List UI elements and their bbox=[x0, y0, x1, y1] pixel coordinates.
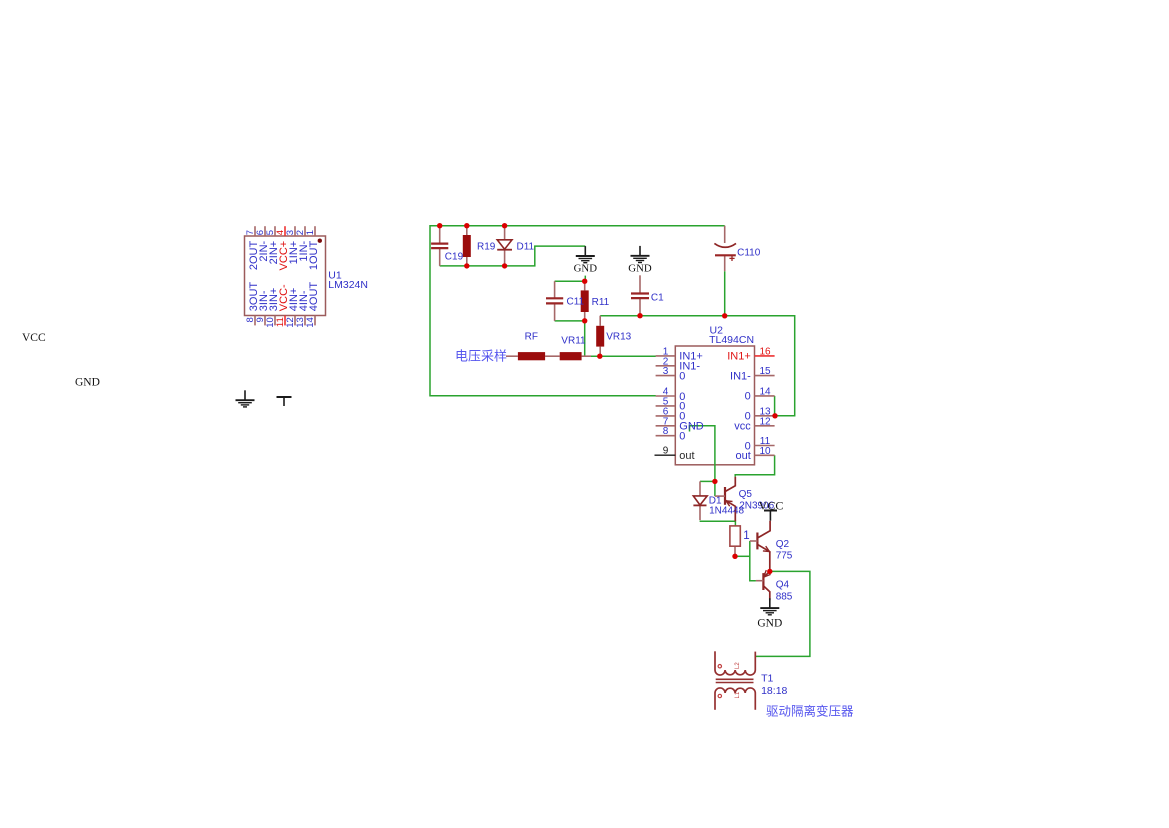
svg-text:0: 0 bbox=[679, 431, 685, 443]
svg-text:out: out bbox=[679, 450, 694, 462]
svg-text:out: out bbox=[736, 450, 751, 462]
svg-text:LM324N: LM324N bbox=[328, 279, 368, 291]
svg-text:C11: C11 bbox=[567, 297, 585, 308]
svg-text:T1: T1 bbox=[761, 672, 773, 684]
svg-text:R11: R11 bbox=[592, 297, 610, 308]
svg-text:D11: D11 bbox=[517, 242, 535, 253]
svg-text:GND: GND bbox=[757, 617, 782, 629]
svg-text:VR11: VR11 bbox=[561, 336, 586, 347]
svg-text:9: 9 bbox=[663, 446, 669, 457]
svg-text:Q5: Q5 bbox=[739, 489, 753, 500]
svg-text:Q4: Q4 bbox=[776, 580, 790, 591]
svg-text:14: 14 bbox=[759, 386, 771, 397]
svg-text:15: 15 bbox=[759, 366, 771, 377]
svg-text:1OUT: 1OUT bbox=[308, 241, 320, 271]
svg-text:C110: C110 bbox=[737, 248, 761, 259]
svg-text:14: 14 bbox=[305, 317, 316, 328]
svg-text:GND: GND bbox=[574, 262, 598, 274]
svg-text:8: 8 bbox=[663, 426, 669, 437]
svg-text:L1: L1 bbox=[735, 691, 741, 698]
svg-text:C1: C1 bbox=[651, 292, 664, 303]
svg-text:L2: L2 bbox=[735, 662, 741, 669]
svg-text:RF: RF bbox=[525, 332, 538, 343]
svg-text:GND: GND bbox=[75, 377, 100, 389]
svg-text:18:18: 18:18 bbox=[761, 685, 787, 697]
svg-text:3: 3 bbox=[663, 366, 669, 377]
svg-text:TL494CN: TL494CN bbox=[709, 334, 754, 346]
svg-text:12: 12 bbox=[759, 416, 771, 427]
svg-text:IN1-: IN1- bbox=[730, 370, 751, 382]
svg-text:VCC: VCC bbox=[759, 498, 784, 512]
svg-text:Q2: Q2 bbox=[776, 539, 790, 550]
svg-text:885: 885 bbox=[776, 591, 793, 602]
svg-text:电压采样: 电压采样 bbox=[455, 348, 507, 363]
svg-text:IN1+: IN1+ bbox=[727, 351, 751, 363]
svg-text:1: 1 bbox=[305, 230, 316, 235]
svg-text:GND: GND bbox=[628, 262, 652, 274]
svg-text:775: 775 bbox=[776, 551, 793, 562]
svg-text:10: 10 bbox=[759, 446, 771, 457]
svg-text:16: 16 bbox=[759, 346, 771, 357]
svg-text:0: 0 bbox=[679, 370, 685, 382]
svg-text:R19: R19 bbox=[477, 242, 496, 253]
svg-text:4OUT: 4OUT bbox=[308, 282, 320, 312]
svg-text:vcc: vcc bbox=[734, 421, 751, 433]
svg-text:1: 1 bbox=[743, 530, 749, 542]
svg-text:驱动隔离变压器: 驱动隔离变压器 bbox=[766, 704, 854, 719]
svg-text:VR13: VR13 bbox=[606, 332, 631, 343]
svg-text:0: 0 bbox=[745, 391, 751, 403]
svg-text:VCC: VCC bbox=[22, 332, 46, 344]
svg-text:C19: C19 bbox=[445, 251, 464, 262]
